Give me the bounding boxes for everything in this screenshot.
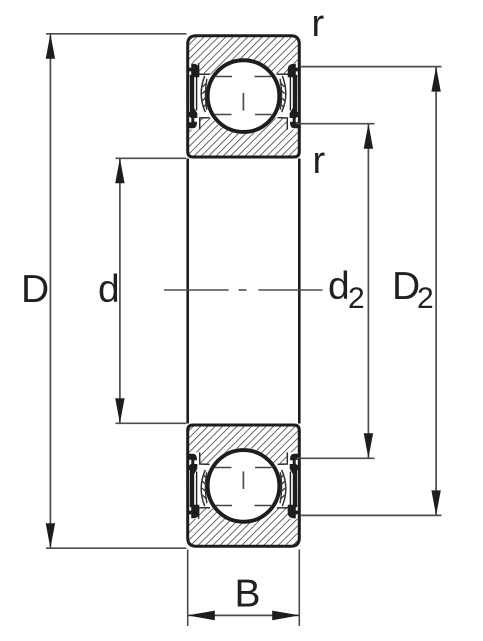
cage crescent right (top): [282, 76, 286, 112]
outer ring seal-groove edges (bottom): [199, 508, 210, 519]
outer ring (top section): [188, 36, 300, 75]
inner ring seal-groove edges (bottom): [200, 452, 210, 464]
dimension d arrows: [115, 158, 124, 183]
dimension d2 extension lines: [297, 123, 375, 125]
dimension D2 extension lines: [301, 66, 442, 68]
svg-text:2: 2: [417, 282, 434, 315]
outer ring (bottom section): [188, 507, 300, 546]
svg-text:D: D: [21, 268, 49, 311]
bore edge line left: [186, 159, 189, 424]
inner ring (bottom section): [188, 425, 300, 464]
dimension d line: [119, 159, 121, 423]
svg-text:r: r: [312, 3, 325, 45]
seal right (bottom section): [288, 505, 299, 519]
cage crescent left (top): [201, 76, 205, 112]
inner ring (top section): [188, 118, 300, 157]
bearing axis centreline: [164, 289, 229, 291]
dimension D line: [49, 35, 51, 548]
dimension D arrows: [46, 34, 55, 59]
dimension B arrows: [187, 611, 215, 621]
svg-text:B: B: [235, 573, 261, 616]
ball centre mark (top): [242, 93, 244, 111]
seal right (top section): [288, 64, 299, 78]
dimension d2 arrows: [364, 124, 373, 149]
bore edge line right: [298, 159, 301, 424]
dimension D2 line: [435, 67, 437, 514]
ring land lines across ball (bottom): [215, 505, 232, 507]
seal left (bottom section): [188, 505, 199, 519]
cage crescent right (bottom): [282, 470, 286, 506]
svg-text:r: r: [313, 140, 326, 182]
dimension B line: [189, 614, 299, 616]
svg-text:D: D: [392, 265, 420, 308]
ball (top section): [208, 60, 280, 132]
seal left (top section): [188, 64, 199, 78]
dimension d extension lines: [116, 157, 187, 159]
dimension D2 arrows: [431, 67, 440, 92]
ball (bottom section): [208, 450, 280, 522]
outer ring seal-groove edges (top): [199, 63, 210, 74]
cage crescent left (bottom): [201, 470, 205, 506]
dimension B extension lines: [187, 550, 189, 627]
svg-text:2: 2: [348, 282, 365, 315]
svg-text:d: d: [328, 265, 350, 308]
inner ring seal-groove edges (top): [200, 118, 210, 130]
ring outline (top section): [188, 36, 300, 157]
ring land lines across ball (top): [215, 76, 232, 78]
dimension d2 line: [367, 124, 369, 457]
dimension D extension lines: [46, 33, 187, 35]
svg-text:d: d: [98, 268, 120, 311]
ring outline (bottom section): [188, 425, 300, 546]
ball centre mark (bottom): [242, 471, 244, 489]
